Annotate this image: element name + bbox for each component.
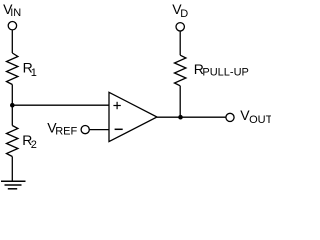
resistor R1 xyxy=(7,53,18,85)
resistor RPULL-UP xyxy=(175,55,186,86)
svg-text:OUT: OUT xyxy=(249,114,271,126)
svg-text:REF: REF xyxy=(55,126,77,138)
terminal VIN xyxy=(8,22,16,30)
wire VD to RPULL-UP xyxy=(179,31,181,55)
wire R2 to ground xyxy=(11,157,13,182)
op-amp + input marker xyxy=(113,102,120,109)
resistor R2 xyxy=(7,126,18,157)
ground xyxy=(1,181,26,189)
op-amp - input marker xyxy=(115,128,123,130)
net label VD xyxy=(172,1,188,20)
node A junction xyxy=(10,103,15,108)
svg-text:2: 2 xyxy=(31,139,37,151)
wire VIN to R1 xyxy=(11,30,13,53)
wire node A to op-amp + input xyxy=(12,104,109,106)
svg-text:PULL-UP: PULL-UP xyxy=(202,67,248,79)
wire RPULL-UP to output node xyxy=(179,86,181,117)
net label VOUT xyxy=(240,107,272,126)
wire R1 to node A xyxy=(11,85,13,126)
net label VREF xyxy=(47,120,77,138)
terminal VOUT xyxy=(226,113,234,121)
svg-text:1: 1 xyxy=(31,67,37,79)
wire VREF to op-amp - input xyxy=(89,129,109,131)
svg-text:IN: IN xyxy=(10,7,21,19)
net label VIN xyxy=(3,1,21,19)
op-amp U1 xyxy=(109,92,157,141)
label R2 xyxy=(22,132,37,151)
wire op-amp output to VOUT terminal xyxy=(157,116,226,118)
label RPULL-UP xyxy=(194,61,249,79)
label R1 xyxy=(23,60,37,80)
terminal VD xyxy=(176,23,184,31)
terminal VREF xyxy=(81,126,89,134)
output node junction xyxy=(178,115,183,120)
svg-text:D: D xyxy=(180,8,188,20)
